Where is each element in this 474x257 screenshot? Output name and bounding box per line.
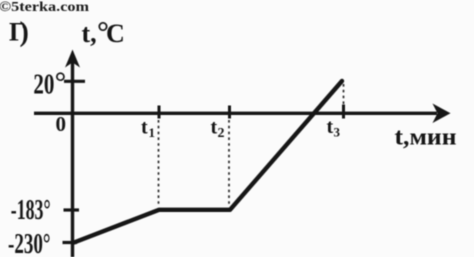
dashed guide at t2 <box>228 120 230 204</box>
svg-text:-183°: -183° <box>11 194 51 226</box>
dashed guide at t3 <box>343 84 345 104</box>
svg-text:3: 3 <box>334 125 341 140</box>
tick 20° <box>64 80 85 83</box>
svg-text:©5terka.com: ©5terka.com <box>0 0 90 14</box>
tick t2 <box>228 106 231 119</box>
svg-text:-230°: -230° <box>8 228 51 257</box>
tick t3 <box>342 105 345 119</box>
tick -230° <box>63 241 78 244</box>
svg-text:t,: t, <box>82 19 97 48</box>
svg-text:C: C <box>106 19 125 48</box>
x-axis <box>34 112 437 115</box>
x tick label t2 <box>211 117 225 142</box>
tick -183° <box>64 208 80 211</box>
y-axis arrowhead <box>65 50 80 68</box>
y-axis <box>71 57 74 257</box>
temperature curve <box>74 81 342 243</box>
x tick label t3 <box>327 116 341 140</box>
svg-text:20: 20 <box>33 69 54 101</box>
svg-text:1: 1 <box>149 125 156 140</box>
x-axis arrowhead <box>433 104 451 124</box>
svg-text:0: 0 <box>56 112 67 136</box>
x tick label t1 <box>141 117 155 141</box>
svg-text:t: t <box>327 116 334 138</box>
svg-text:2: 2 <box>218 126 225 141</box>
dashed guide at t1 <box>158 120 160 206</box>
svg-text:t: t <box>141 117 148 139</box>
svg-text:t: t <box>211 117 218 139</box>
svg-text:): ) <box>20 17 29 48</box>
tick t1 <box>158 106 161 119</box>
svg-text:t,мин: t,мин <box>395 125 457 151</box>
